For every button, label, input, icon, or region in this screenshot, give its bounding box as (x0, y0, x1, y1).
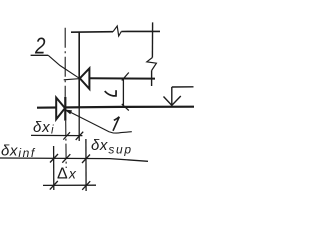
level-2 dimension line (inf/sup underline) (0, 158, 148, 161)
svg-text:δxsup: δxsup (91, 137, 133, 157)
right arrow structure horizontal arm (172, 86, 194, 88)
diode 1 cathode bar (64, 97, 66, 121)
label 1 (113, 117, 119, 131)
callout 1 arrowhead (65, 110, 72, 114)
svg-text:δxinf: δxinf (1, 143, 36, 160)
diode 1 triangle (lower, pointing right) (56, 98, 65, 120)
extension line below V1 (78, 108, 80, 141)
diode 2 triangle (upper, pointing left) (80, 68, 90, 89)
break symbol on top line (113, 26, 121, 36)
slash tick at x86 (82, 181, 90, 190)
callout 2 leader (48, 55, 79, 78)
label L (rotated italic) (105, 90, 116, 96)
dxi shelf line (31, 134, 82, 136)
left bound extension line (53, 146, 55, 190)
svg-text:δxi: δxi (33, 119, 54, 137)
svg-text:2: 2 (34, 34, 46, 59)
slash tick at x54 (50, 154, 58, 163)
arrow hook bottom (122, 104, 129, 111)
centerline (dash-dot) upper part (64, 28, 66, 97)
callout 1 leader (67, 110, 132, 133)
callout 2 shelf (31, 54, 49, 56)
break symbol on V2 (147, 58, 157, 71)
wire main horizontal line (37, 107, 194, 108)
slash tick at its foot (76, 132, 84, 140)
svg-text:Δx: Δx (57, 166, 77, 183)
wire top horizontal line with break gap (71, 31, 113, 34)
slash tick at x53.8 (50, 181, 58, 190)
delta-x dimension line (43, 184, 96, 186)
slash tick on dxi shelf at centerline (63, 132, 70, 139)
wire vertical line V2 right (151, 22, 153, 57)
arrow hook top (122, 73, 129, 81)
centerline extension below diode (65, 121, 68, 168)
right bound extension line (85, 139, 87, 191)
wire vertical line V1 (78, 32, 80, 107)
slash tick at x66 (62, 154, 70, 163)
dimension line L vertical (122, 78, 124, 106)
right arrow vertical with open arrowhead down (171, 87, 173, 105)
slash tick at x86 (82, 155, 90, 164)
wire upper diode output line (89, 77, 155, 79)
